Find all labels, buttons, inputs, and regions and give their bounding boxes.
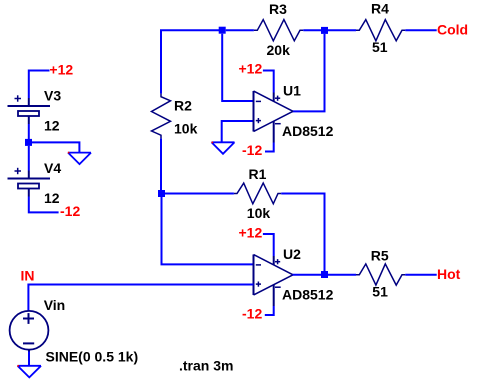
svg-text:Hot: Hot <box>437 266 461 282</box>
net label +12 (U1 supply) <box>239 61 263 77</box>
node junction E (V3/V4 midpoint) <box>25 139 32 146</box>
op-amp U1 <box>254 91 294 143</box>
wire: -12 flag to U1 V- pin <box>265 143 274 152</box>
wire: junction C to R1 <box>165 193 234 195</box>
svg-text:AD8512: AD8512 <box>282 286 334 302</box>
value AD8512 (U2) <box>282 286 334 302</box>
svg-text:20k: 20k <box>267 42 291 58</box>
net label -12 (V4 bottom) <box>60 203 80 219</box>
net label Cold <box>437 22 468 38</box>
label V3 <box>44 87 61 103</box>
wire: V3 minus to junction E <box>28 124 30 139</box>
label R3 <box>269 1 287 17</box>
label R1 <box>249 166 267 182</box>
svg-text:51: 51 <box>372 284 388 300</box>
label U1 <box>283 82 301 98</box>
value 10k (R2) <box>174 121 198 137</box>
wire: R2 down to junction C <box>160 139 162 190</box>
wire: +12 flag to U1 V+ pin <box>263 71 274 93</box>
label U2 <box>283 246 301 262</box>
node junction C (R2 bottom / R1 left / U2 inverting) <box>158 190 165 197</box>
svg-text:-12: -12 <box>242 305 262 321</box>
net label -12 (U1 supply) <box>242 142 262 158</box>
net label +12 (U2 supply) <box>239 224 263 240</box>
wire: R4 to Cold flag <box>405 29 436 31</box>
svg-text:R4: R4 <box>371 1 389 17</box>
value 20k <box>267 42 291 58</box>
voltage source Vin <box>10 311 49 352</box>
node junction D (U2 output / R5) <box>321 271 328 278</box>
net label +12 (V3 top) <box>49 61 73 77</box>
svg-text:U2: U2 <box>283 246 301 262</box>
wire: U1 output up to junction B <box>293 34 325 112</box>
wire: +12 flag down to V3 plus terminal <box>29 71 50 99</box>
node junction A (top, R3 left / U1 inverting feed) <box>219 27 226 34</box>
net label IN <box>21 267 35 283</box>
wire: junction E right to ground <box>32 142 79 152</box>
svg-text:10k: 10k <box>174 121 198 137</box>
svg-text:51: 51 <box>372 39 388 55</box>
svg-text:R1: R1 <box>249 166 267 182</box>
resistor R5 <box>356 264 405 285</box>
value SINE(0 0.5 1k) <box>46 348 139 364</box>
svg-text:.tran 3m: .tran 3m <box>179 358 233 374</box>
value 51 (R5) <box>372 284 388 300</box>
value 51 <box>372 39 388 55</box>
wire: top-left corner from R2 up to junction A <box>161 30 219 93</box>
value 10k (R1) <box>247 205 271 221</box>
svg-text:12: 12 <box>44 117 60 133</box>
wire: U2 output to junction D <box>293 274 322 276</box>
battery V3 <box>8 95 51 124</box>
svg-text:V3: V3 <box>44 87 61 103</box>
label Vin <box>44 297 66 313</box>
svg-text:V4: V4 <box>44 160 61 176</box>
spice directive .tran 3m <box>179 358 233 374</box>
svg-text:Vin: Vin <box>44 297 66 313</box>
label R4 <box>371 1 389 17</box>
net label Hot <box>437 266 461 282</box>
svg-text:SINE(0 0.5 1k): SINE(0 0.5 1k) <box>46 348 139 364</box>
svg-text:+12: +12 <box>239 61 263 77</box>
label R5 <box>371 247 389 263</box>
svg-text:+12: +12 <box>49 61 73 77</box>
wire: junction B to R4 <box>328 29 356 31</box>
node junction B (R3/R4/U1 output) <box>321 27 328 34</box>
value 12 (V4) <box>44 190 60 206</box>
op-amp U2 <box>254 255 294 307</box>
wire: -12 flag to U2 V- pin <box>265 306 274 315</box>
svg-text:R5: R5 <box>371 247 389 263</box>
resistor R3 <box>254 20 303 41</box>
ground (Vin) <box>17 365 41 377</box>
wire: U1 non-inverting input to ground <box>222 121 254 142</box>
value AD8512 (U1) <box>282 123 334 139</box>
wire: junction E down to V4 plus terminal <box>28 146 30 171</box>
svg-text:Cold: Cold <box>437 22 468 38</box>
svg-text:10k: 10k <box>247 205 271 221</box>
wire: Vin bottom to ground <box>28 352 30 366</box>
battery V4 <box>8 168 51 197</box>
wire: junction C down to U2 inverting input <box>162 197 254 264</box>
resistor R4 <box>356 20 405 41</box>
wire: R5 to Hot flag <box>405 274 436 276</box>
ground (V3/V4 midpoint) <box>68 152 91 164</box>
svg-text:AD8512: AD8512 <box>282 123 334 139</box>
ground (U1 non-inverting input) <box>212 142 235 154</box>
svg-text:-12: -12 <box>60 203 80 219</box>
svg-text:U1: U1 <box>283 82 301 98</box>
svg-text:+12: +12 <box>239 224 263 240</box>
svg-text:12: 12 <box>44 190 60 206</box>
wire: R3 to junction B <box>303 29 321 31</box>
svg-text:-12: -12 <box>242 142 262 158</box>
resistor R1 <box>234 183 281 204</box>
value 12 (V3) <box>44 117 60 133</box>
label V4 <box>44 160 61 176</box>
wire: +12 flag to U2 V+ pin <box>263 234 274 256</box>
label R2 <box>174 98 192 114</box>
wire: IN net from Vin top to U2 non-inverting input <box>28 285 253 312</box>
resistor R2 <box>152 94 171 139</box>
wire: junction A to R3 <box>226 29 254 31</box>
wire: junction D to R5 <box>328 274 356 276</box>
svg-text:R2: R2 <box>174 98 192 114</box>
svg-text:R3: R3 <box>269 1 287 17</box>
wire: junction A down to U1 inverting input <box>222 34 253 101</box>
svg-text:IN: IN <box>21 267 35 283</box>
net label -12 (U2 supply) <box>242 305 262 321</box>
wire: R1 right down to junction D <box>281 194 324 272</box>
wire: V4 minus to -12 flag <box>29 197 59 213</box>
